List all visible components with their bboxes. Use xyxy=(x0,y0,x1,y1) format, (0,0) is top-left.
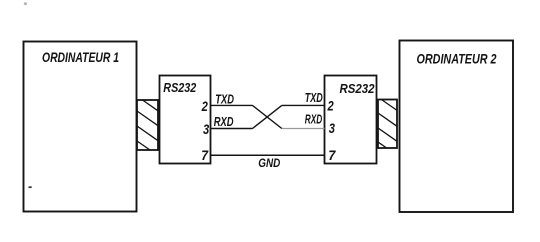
svg-text:7: 7 xyxy=(328,147,336,163)
svg-text:3: 3 xyxy=(203,121,209,137)
svg-text:GND: GND xyxy=(258,156,280,170)
connector hatch left xyxy=(137,100,158,150)
scan speck top left xyxy=(24,2,27,5)
RS232 box U1 (left) xyxy=(160,76,211,164)
svg-text:RXD: RXD xyxy=(214,115,234,129)
svg-text:ORDINATEUR 2: ORDINATEUR 2 xyxy=(417,51,497,67)
svg-text:RXD: RXD xyxy=(305,113,323,127)
svg-text:RS232: RS232 xyxy=(163,80,197,95)
computer box ORDINATEUR 2 xyxy=(400,41,514,213)
svg-text:7: 7 xyxy=(201,147,209,163)
connector hatch right xyxy=(378,100,397,149)
svg-text:TXD: TXD xyxy=(215,92,234,106)
computer box ORDINATEUR 1 xyxy=(24,42,137,212)
wire GND (pin 7 to pin 7) xyxy=(211,154,325,156)
svg-text:RS232: RS232 xyxy=(340,81,376,96)
svg-text:3: 3 xyxy=(329,120,335,136)
svg-text:2: 2 xyxy=(327,98,334,114)
RS232 box U2 (right) xyxy=(325,76,377,164)
wire RXD left (pin 3 to crossover) xyxy=(211,128,253,130)
wire crossover diagonal down (left TXD to right RXD) xyxy=(253,105,282,128)
wire RXD right faint (crossover to pin 3) xyxy=(282,128,325,130)
wire TXD left (pin 2 to crossover) xyxy=(211,104,253,106)
wire crossover diagonal up (left RXD to right TXD) xyxy=(253,105,282,128)
wire TXD right (crossover to pin 2) xyxy=(282,104,325,106)
svg-text:2: 2 xyxy=(201,98,208,114)
svg-text:TXD: TXD xyxy=(305,91,323,105)
svg-text:ORDINATEUR 1: ORDINATEUR 1 xyxy=(42,49,119,65)
scan dash left box xyxy=(29,186,32,188)
